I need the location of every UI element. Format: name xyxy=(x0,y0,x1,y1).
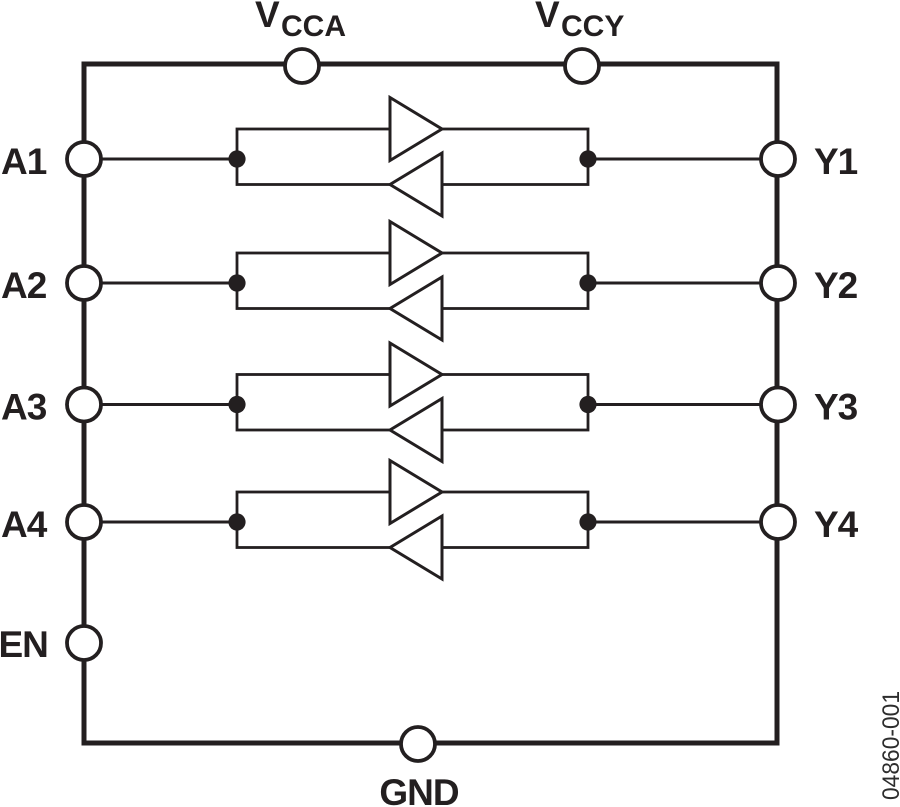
node junction left xyxy=(228,396,245,413)
buffer Y-to-A xyxy=(390,399,442,462)
channel 1 block xyxy=(100,98,762,217)
svg-text:A3: A3 xyxy=(1,387,47,428)
svg-text:V: V xyxy=(535,0,560,35)
buffer A-to-Y xyxy=(390,222,442,285)
node junction left xyxy=(228,513,245,530)
pin Y2 xyxy=(761,266,795,300)
label VCCA xyxy=(255,0,346,43)
buffer Y-to-A xyxy=(390,277,442,340)
channel 3 block xyxy=(100,343,762,462)
svg-text:CCA: CCA xyxy=(281,10,346,43)
wire node to Y1 xyxy=(588,158,762,161)
svg-text:A2: A2 xyxy=(1,265,47,306)
wire A3 to node xyxy=(100,403,237,406)
pin Y1 xyxy=(761,142,795,176)
svg-text:A4: A4 xyxy=(1,504,48,545)
channel box wire xyxy=(237,375,588,431)
outer box wire xyxy=(84,64,777,743)
pin Y3 xyxy=(761,388,795,422)
pin VCCA xyxy=(285,49,319,83)
pin Y4 xyxy=(761,505,795,539)
buffer A-to-Y xyxy=(390,98,442,161)
svg-text:Y1: Y1 xyxy=(814,141,858,182)
pin EN xyxy=(67,626,101,660)
channel 2 block xyxy=(100,222,762,341)
wire node to Y4 xyxy=(588,521,762,524)
pin A2 xyxy=(67,266,101,300)
node junction left xyxy=(228,274,245,291)
svg-text:Y2: Y2 xyxy=(814,265,858,306)
buffer Y-to-A xyxy=(390,153,442,216)
node junction left xyxy=(228,150,245,167)
node junction right xyxy=(579,396,596,413)
channel box wire xyxy=(237,492,588,548)
channel 4 block xyxy=(100,461,762,580)
wire A2 to node xyxy=(100,282,237,285)
pin A4 xyxy=(67,505,101,539)
node junction right xyxy=(579,150,596,167)
wire node to Y2 xyxy=(588,282,762,285)
buffer A-to-Y xyxy=(390,343,442,406)
svg-text:GND: GND xyxy=(379,772,459,807)
wire A4 to node xyxy=(100,521,237,524)
label VCCY xyxy=(535,0,624,43)
svg-text:Y3: Y3 xyxy=(814,387,858,428)
wire node to Y3 xyxy=(588,403,762,406)
svg-text:04860-001: 04860-001 xyxy=(878,691,900,800)
svg-text:V: V xyxy=(255,0,280,35)
pin A3 xyxy=(67,388,101,422)
buffer Y-to-A xyxy=(390,516,442,579)
channel box wire xyxy=(237,253,588,309)
node junction right xyxy=(579,274,596,291)
svg-text:Y4: Y4 xyxy=(814,504,859,545)
svg-text:CCY: CCY xyxy=(561,10,624,43)
channel box wire xyxy=(237,129,588,185)
node junction right xyxy=(579,513,596,530)
buffer A-to-Y xyxy=(390,461,442,524)
pin VCCY xyxy=(565,49,599,83)
pin GND xyxy=(401,727,435,761)
wire A1 to node xyxy=(100,158,237,161)
svg-text:EN: EN xyxy=(0,624,48,665)
svg-text:A1: A1 xyxy=(1,141,47,182)
pin A1 xyxy=(67,142,101,176)
